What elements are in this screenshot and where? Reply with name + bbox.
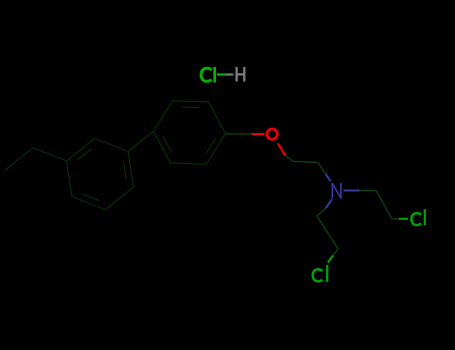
bond CH2-CH2 down arm — [317, 216, 338, 248]
bond O-CH2 red half — [278, 143, 286, 155]
wire chain seg 2 — [5, 148, 33, 171]
atom label Cl bottom: letter C — [313, 269, 323, 281]
bond CH2-CH2 right arm — [376, 191, 392, 219]
benzene ring A — [67, 138, 134, 209]
atom label Cl bottom: letter l — [326, 265, 328, 282]
bond N-CH2 down blue half — [326, 199, 332, 208]
wire chain seg 1 — [33, 148, 67, 161]
bond CH2-Cl carbon half — [392, 218, 399, 220]
bond N-CH2 right blue half — [344, 190, 360, 192]
ring A inner double bond 1 — [123, 161, 126, 179]
ring A outline — [67, 138, 134, 209]
bond N-CH2 down carbon half — [317, 208, 326, 216]
ring A inner double bond 3 — [77, 149, 92, 161]
bond Cl-H green half — [217, 73, 225, 75]
atom label N — [332, 183, 341, 199]
alkyl chain from ring A — [5, 148, 67, 171]
bond N-CH2 right carbon half — [360, 190, 377, 192]
atom label Cl right: letter C — [411, 213, 421, 225]
bond C-O red half (left of O) — [252, 133, 265, 135]
ring B outline — [154, 101, 226, 165]
bond Cl-H gray half — [225, 73, 233, 75]
atom label H — [237, 67, 245, 82]
atom label O — [267, 129, 277, 139]
bond CH2-Cl green half — [399, 218, 408, 220]
atom label Cl (HCl): letter C — [201, 68, 212, 81]
bond ring B to ring A — [128, 131, 153, 151]
bond O-CH2 carbon half — [285, 156, 293, 162]
atom label Cl (HCl): letter l — [213, 67, 216, 83]
ring A inner double bond 2 — [82, 194, 99, 201]
ring B inner double bond 1 — [206, 138, 216, 154]
bond ring B to O (carbon half) — [226, 133, 252, 135]
bond CH2-Cl bottom carbon half — [333, 249, 338, 256]
ring B inner double bond 2 — [163, 136, 172, 152]
ring B inner double bond 3 — [181, 106, 200, 109]
hydrochloride group HCl — [201, 67, 244, 83]
bond CH2-N blue half — [326, 174, 331, 181]
bond CH2-Cl bottom green half — [328, 256, 333, 263]
bond CH2-N carbon half — [318, 163, 326, 175]
benzene ring B (attached to O) — [154, 101, 226, 165]
bond CH2-CH2 (O side chain) — [293, 161, 318, 162]
atom label Cl right: letter l — [424, 209, 426, 225]
